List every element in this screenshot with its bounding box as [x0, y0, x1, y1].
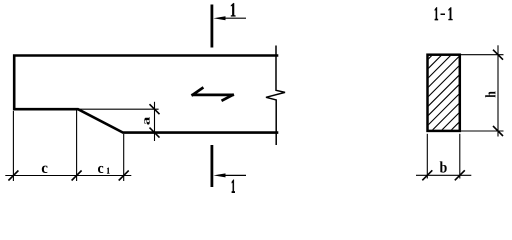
label 1 (bottom)	[232, 180, 235, 193]
dimension a: extension line	[78, 108, 159, 110]
tick at a top	[150, 104, 160, 114]
label h	[485, 91, 495, 97]
section cut arrow top	[213, 16, 246, 20]
tick at b left	[422, 170, 432, 180]
tick at x=123.7	[119, 171, 129, 181]
dimension b: dimension line	[416, 174, 471, 176]
extension line left (x=13.4)	[12, 111, 14, 181]
flow symbol (double half-arrow)	[192, 87, 234, 100]
label c1	[98, 166, 103, 173]
extension line at slope end (x=123.7)	[123, 134, 125, 181]
extension line at slope start (x=76.6)	[76, 111, 78, 182]
tick at h bottom	[493, 126, 503, 136]
dimension h: extension line bottom	[461, 130, 504, 132]
dimension line c/c1	[5, 175, 131, 177]
dimension a: dimension line	[154, 102, 156, 141]
label a	[144, 117, 149, 125]
label b	[440, 161, 447, 172]
dimension h: dimension line	[497, 45, 499, 136]
break line (right end of beam)	[266, 46, 285, 146]
section cut arrow bottom	[213, 173, 246, 177]
dimension b: extension line right	[459, 134, 461, 179]
label 1 (top)	[231, 3, 235, 16]
tick at x=13.4	[8, 171, 18, 181]
beam outline	[14, 56, 277, 133]
section rectangle	[428, 55, 460, 131]
tick at a bottom	[150, 128, 160, 138]
dimension b: extension line left	[426, 134, 428, 179]
section cut mark bottom (bar)	[210, 145, 213, 187]
label c	[42, 166, 48, 173]
dimension h: extension line top	[461, 54, 504, 56]
section title 1-1	[435, 7, 438, 20]
section cut mark top (bar)	[210, 5, 213, 48]
tick at b right	[455, 170, 465, 180]
tick at h top	[493, 50, 503, 60]
tick at x=76.6	[72, 171, 82, 181]
